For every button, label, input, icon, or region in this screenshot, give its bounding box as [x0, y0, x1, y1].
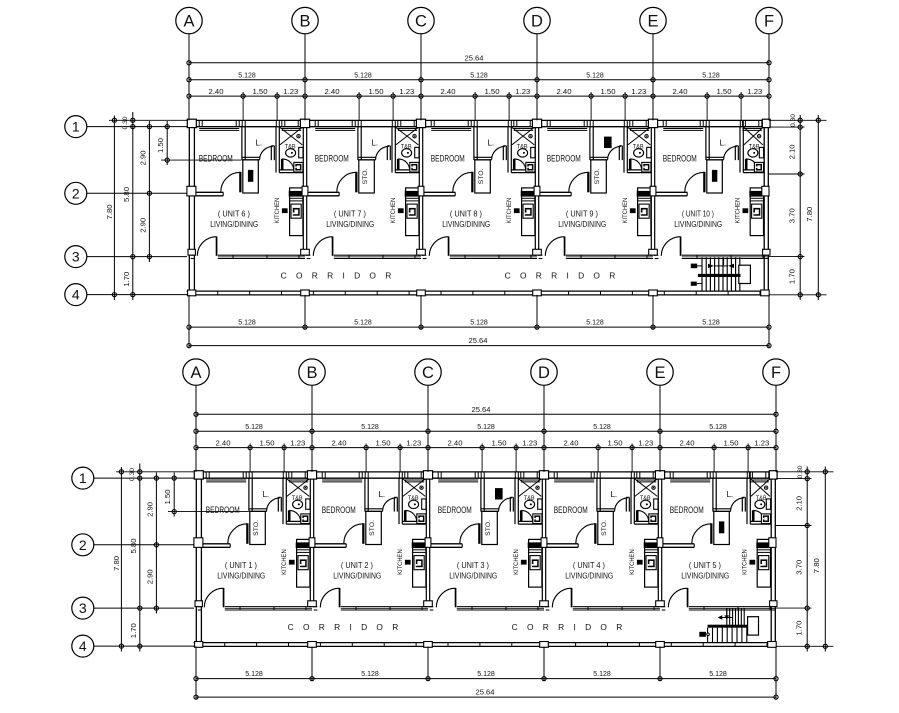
closet cabinet black — [495, 488, 503, 499]
svg-text:STO.: STO. — [369, 520, 376, 536]
svg-text:STO.: STO. — [362, 168, 369, 184]
stair newel post upper — [691, 264, 697, 269]
svg-text:( UNIT 8 ): ( UNIT 8 ) — [450, 209, 482, 219]
svg-text:( UNIT 6 ): ( UNIT 6 ) — [218, 209, 250, 219]
svg-text:( UNIT 7 ): ( UNIT 7 ) — [334, 209, 366, 219]
ground floor plan — [72, 359, 834, 700]
svg-text:( UNIT 10 ): ( UNIT 10 ) — [682, 209, 714, 219]
stair handrail — [698, 274, 741, 277]
svg-text:STO.: STO. — [478, 168, 485, 184]
stair handrail — [708, 625, 748, 628]
svg-text:( UNIT 3 ): ( UNIT 3 ) — [457, 560, 489, 570]
svg-text:( UNIT 2 ): ( UNIT 2 ) — [341, 560, 373, 570]
svg-text:STO.: STO. — [485, 520, 492, 536]
svg-text:STO.: STO. — [253, 520, 260, 536]
second floor plan — [65, 7, 827, 348]
stair direction arrows — [708, 264, 714, 268]
stair treads upper floor — [702, 258, 740, 292]
svg-text:( UNIT 4 ): ( UNIT 4 ) — [573, 560, 605, 570]
closet cabinet white mask — [492, 488, 505, 499]
stair newel post — [699, 632, 706, 637]
closet cabinet black — [604, 137, 612, 148]
closet cabinet white mask — [601, 136, 614, 147]
stair lower flight treads — [708, 628, 747, 643]
storage door black — [248, 170, 253, 182]
svg-text:( UNIT 1 ): ( UNIT 1 ) — [225, 560, 257, 570]
stair newel post lower — [691, 282, 697, 286]
stair landing — [739, 265, 751, 283]
stair up arrow — [726, 609, 728, 617]
stair upper flight treads — [727, 608, 744, 625]
stair newel dot — [707, 633, 710, 636]
svg-text:STO.: STO. — [601, 520, 608, 536]
svg-text:STO.: STO. — [594, 168, 601, 184]
storage door black — [712, 170, 717, 182]
storage door black — [719, 521, 724, 533]
svg-text:( UNIT 5 ): ( UNIT 5 ) — [689, 560, 721, 570]
stair landing — [748, 617, 759, 635]
svg-text:( UNIT 9 ): ( UNIT 9 ) — [566, 209, 598, 219]
